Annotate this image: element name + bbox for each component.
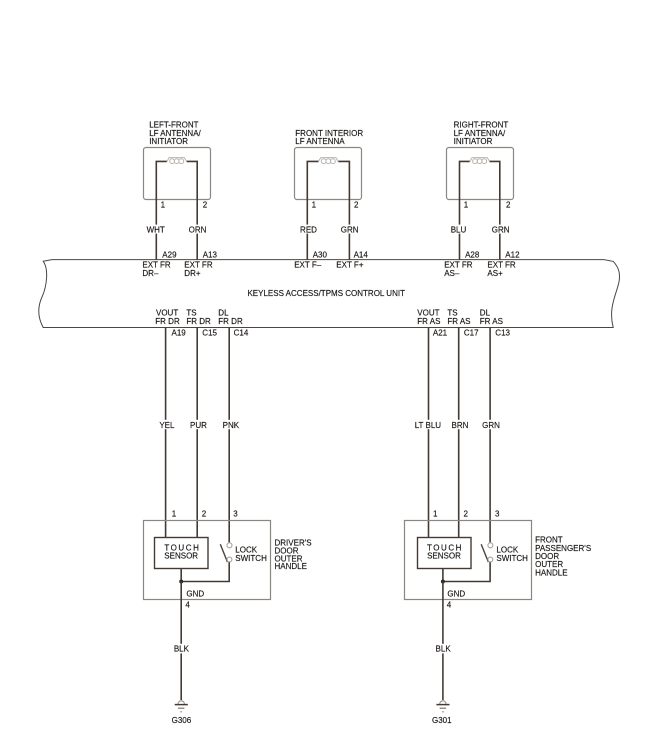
touch sensor driver box: [155, 538, 209, 569]
svg-text:2: 2: [202, 510, 207, 519]
svg-text:C17: C17: [464, 329, 479, 338]
lock switch driver: [220, 543, 232, 562]
svg-text:SENSOR: SENSOR: [164, 551, 198, 560]
wire touch sensor driver to junction: [180, 569, 182, 582]
wire color BLK passenger: [434, 644, 453, 654]
wire color BLU: [449, 225, 468, 235]
wire right antenna pin2 internal: [490, 161, 500, 259]
svg-text:A13: A13: [203, 251, 218, 260]
svg-text:LT BLU: LT BLU: [415, 421, 442, 430]
wire color GRN right: [491, 225, 510, 235]
svg-text:A30: A30: [313, 251, 328, 260]
lock switch passenger label: [496, 546, 528, 563]
svg-text:4: 4: [447, 601, 452, 610]
left-front LF antenna/initiator box: [144, 148, 211, 200]
net EXT FR AS+: [487, 261, 516, 278]
svg-text:BRN: BRN: [452, 421, 469, 430]
svg-text:FR DR: FR DR: [218, 317, 243, 326]
svg-text:A12: A12: [505, 251, 520, 260]
svg-text:SWITCH: SWITCH: [496, 554, 528, 563]
wire right antenna pin1 internal: [460, 161, 470, 259]
svg-text:WHT: WHT: [147, 226, 165, 235]
wire color GRN middle: [340, 225, 359, 235]
svg-text:PNK: PNK: [223, 421, 240, 430]
net EXT FR DR+: [184, 261, 213, 278]
wire VOUT FR AS vertical: [428, 328, 430, 538]
svg-text:C15: C15: [202, 329, 217, 338]
svg-text:DR–: DR–: [142, 269, 159, 278]
net TS FR AS: [447, 309, 470, 326]
svg-text:GND: GND: [186, 589, 204, 598]
svg-text:EXT F+: EXT F+: [336, 261, 364, 270]
net DL FR DR: [218, 309, 243, 326]
net TS FR DR: [186, 309, 211, 326]
svg-text:GRN: GRN: [482, 421, 500, 430]
svg-text:SWITCH: SWITCH: [235, 554, 267, 563]
driver's door outer handle box: [144, 521, 271, 600]
svg-text:A28: A28: [465, 251, 480, 260]
wire TS FR AS vertical: [458, 328, 460, 538]
svg-text:G306: G306: [172, 716, 192, 725]
wire color ORN: [188, 225, 207, 235]
svg-text:YEL: YEL: [159, 421, 175, 430]
svg-text:3: 3: [233, 510, 238, 519]
front interior LF antenna box: [295, 148, 362, 200]
wire middle antenna pin2 internal: [338, 161, 349, 259]
wire DL FR DR vertical: [228, 328, 230, 543]
svg-text:EXT F–: EXT F–: [294, 261, 322, 270]
svg-text:2: 2: [506, 201, 511, 210]
svg-text:LF ANTENNA: LF ANTENNA: [295, 137, 345, 146]
svg-text:KEYLESS ACCESS/TPMS CONTROL UN: KEYLESS ACCESS/TPMS CONTROL UNIT: [247, 289, 405, 298]
wire middle antenna pin1 internal: [307, 161, 318, 259]
wire DL FR AS vertical: [489, 328, 491, 543]
svg-text:HANDLE: HANDLE: [535, 568, 567, 577]
svg-text:2: 2: [354, 201, 359, 210]
wire color WHT: [146, 225, 165, 235]
left-front LF antenna/initiator label: [149, 121, 201, 146]
touch sensor driver label: [164, 544, 199, 561]
antenna coil front interior: [319, 158, 339, 164]
wire color RED: [299, 225, 318, 235]
svg-text:2: 2: [464, 510, 469, 519]
keyless access/TPMS control unit outline: [39, 260, 620, 328]
wire color PUR: [189, 420, 209, 430]
wire color LT BLU: [414, 420, 442, 430]
wire TS FR DR vertical: [196, 328, 198, 538]
right-front LF antenna/initiator box: [447, 148, 514, 200]
svg-text:PUR: PUR: [190, 421, 207, 430]
svg-text:AS–: AS–: [444, 269, 460, 278]
svg-text:3: 3: [495, 510, 500, 519]
svg-text:BLK: BLK: [436, 645, 452, 654]
svg-text:FR AS: FR AS: [480, 317, 503, 326]
wire color BLK driver: [172, 644, 191, 654]
svg-text:A21: A21: [433, 329, 448, 338]
svg-text:FR DR: FR DR: [186, 317, 211, 326]
wire lock switch driver to junction: [181, 562, 229, 581]
svg-text:A14: A14: [354, 251, 369, 260]
wire left antenna pin1 internal: [156, 161, 167, 259]
wire color PNK: [221, 420, 241, 430]
svg-text:A29: A29: [162, 251, 177, 260]
svg-text:2: 2: [203, 201, 208, 210]
front passenger's door outer handle box: [405, 521, 532, 600]
net VOUT FR DR: [155, 309, 180, 326]
svg-text:RED: RED: [300, 226, 317, 235]
svg-text:DR+: DR+: [184, 269, 201, 278]
net EXT FR DR-: [142, 261, 171, 278]
svg-text:C14: C14: [234, 329, 249, 338]
svg-text:1: 1: [433, 510, 438, 519]
svg-text:ORN: ORN: [189, 226, 207, 235]
svg-text:1: 1: [464, 201, 469, 210]
front interior LF antenna label: [295, 129, 363, 146]
svg-text:BLU: BLU: [451, 226, 467, 235]
svg-text:SENSOR: SENSOR: [427, 551, 461, 560]
lock switch passenger: [481, 543, 493, 562]
svg-text:GRN: GRN: [341, 226, 359, 235]
wire touch sensor passenger to junction: [442, 569, 444, 582]
driver's door outer handle label: [275, 539, 312, 572]
antenna coil right-front: [470, 158, 490, 164]
junction passenger GND node: [441, 580, 445, 584]
svg-text:4: 4: [185, 601, 190, 610]
svg-text:FR AS: FR AS: [447, 317, 470, 326]
svg-text:1: 1: [172, 510, 177, 519]
svg-text:G301: G301: [432, 716, 452, 725]
wire passenger ground vertical: [442, 582, 444, 701]
svg-text:FR AS: FR AS: [417, 317, 440, 326]
ground G306 symbol: [175, 701, 188, 712]
svg-text:BLK: BLK: [174, 645, 190, 654]
svg-text:1: 1: [161, 201, 166, 210]
junction driver GND node: [179, 580, 183, 584]
svg-text:1: 1: [312, 201, 317, 210]
lock switch driver label: [235, 546, 267, 563]
svg-text:FR DR: FR DR: [155, 317, 180, 326]
wire color YEL: [157, 420, 177, 430]
wire left antenna pin2 internal: [187, 161, 198, 259]
antenna coil left-front: [167, 158, 187, 164]
wire color GRN passenger: [481, 420, 501, 430]
wire driver ground vertical: [180, 582, 182, 701]
svg-text:INITIATOR: INITIATOR: [454, 137, 493, 146]
svg-text:HANDLE: HANDLE: [275, 562, 307, 571]
svg-text:C13: C13: [495, 329, 510, 338]
net DL FR AS: [480, 309, 503, 326]
svg-text:GND: GND: [447, 589, 465, 598]
wire lock switch passenger to junction: [443, 562, 490, 581]
net EXT FR AS-: [444, 261, 473, 278]
touch sensor passenger box: [418, 538, 472, 569]
wire color BRN: [450, 420, 470, 430]
svg-text:INITIATOR: INITIATOR: [149, 137, 188, 146]
svg-text:GRN: GRN: [492, 226, 510, 235]
front passenger's door outer handle label: [535, 536, 591, 578]
ground G301 symbol: [436, 701, 449, 712]
svg-text:A19: A19: [172, 329, 187, 338]
right-front LF antenna/initiator label: [454, 121, 509, 146]
net VOUT FR AS: [417, 309, 440, 326]
svg-text:AS+: AS+: [487, 269, 503, 278]
touch sensor passenger label: [427, 544, 462, 561]
wire VOUT FR DR vertical: [165, 328, 167, 538]
